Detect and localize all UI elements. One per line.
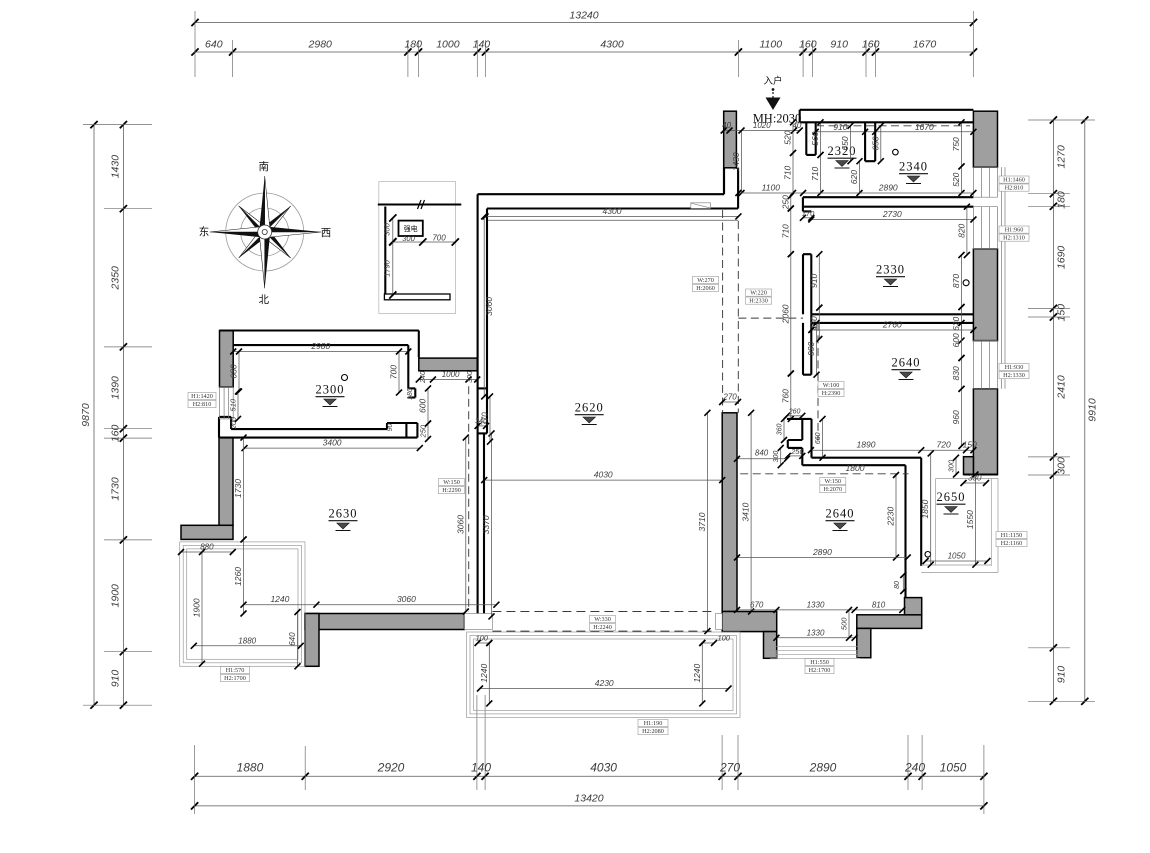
dim 960 2640 right: [961, 389, 963, 446]
wall gray band bottom-right rooms: [857, 615, 922, 629]
svg-text:1550: 1550: [965, 510, 975, 529]
balcony left (nested railing): [180, 542, 305, 666]
svg-text:300: 300: [402, 234, 415, 243]
svg-text:1730: 1730: [110, 477, 122, 501]
svg-text:1270: 1270: [1056, 145, 1068, 169]
svg-text:670: 670: [750, 600, 764, 609]
svg-text:1670: 1670: [913, 39, 937, 51]
dim 260 zigzag: [787, 415, 802, 417]
wall between 2330 and 2640: [811, 313, 973, 315]
svg-text:2230: 2230: [886, 506, 896, 526]
dim 330 2650: [964, 482, 987, 484]
label H1:1460 H2:810 (right wall): [999, 176, 1029, 183]
svg-text:40: 40: [722, 121, 731, 130]
svg-text:2640: 2640: [892, 356, 921, 370]
dim 1260: [243, 539, 245, 613]
svg-text:260: 260: [788, 408, 801, 415]
left dimension chain 9870 / 1430-2350-1390-160-1730-1900-910: [80, 121, 152, 709]
svg-text:1730: 1730: [233, 479, 243, 498]
svg-text:700: 700: [389, 365, 399, 379]
svg-text:3060: 3060: [397, 594, 416, 604]
dashed corridor west: [722, 210, 724, 413]
label H1:1150 H2:1160 (2650): [996, 532, 1027, 539]
svg-text:200: 200: [231, 417, 238, 430]
svg-text:910: 910: [1056, 666, 1068, 684]
svg-text:2890: 2890: [812, 547, 832, 557]
detail inset with strong-electric (qiang dian) box: [378, 182, 462, 314]
svg-text:1430: 1430: [110, 155, 122, 179]
dim 40|1020|40 entry door: [724, 130, 800, 132]
dim 1240 balc left: [488, 643, 490, 703]
svg-text:H1:570: H1:570: [226, 667, 245, 674]
column corridor (long, west of 2640): [722, 413, 737, 612]
dashed corridor east: [737, 221, 739, 413]
svg-text:520: 520: [951, 172, 961, 186]
svg-text:600: 600: [951, 333, 961, 347]
balcony 2650 east (railing): [936, 478, 998, 480]
dim 2730 under wall 2330: [811, 219, 973, 221]
svg-text:9910: 9910: [1087, 398, 1099, 422]
dim 250 corridor top: [790, 196, 792, 209]
svg-text:W:150: W:150: [824, 478, 841, 485]
svg-text:150: 150: [963, 440, 977, 450]
wall gray band bottom-2630: [305, 614, 465, 630]
svg-text:4300: 4300: [603, 206, 622, 216]
svg-text:910: 910: [830, 39, 848, 51]
svg-text:H:2330: H:2330: [749, 298, 768, 305]
svg-text:2300: 2300: [316, 383, 345, 397]
svg-text:2340: 2340: [899, 160, 928, 174]
svg-text:1430: 1430: [731, 152, 741, 171]
window symbol on living north wall: [691, 203, 711, 209]
label H1:930 H2:1330 (right wall): [999, 364, 1029, 371]
wall top (entry/2320/2340 north wall): [800, 109, 974, 111]
svg-text:H1:190: H1:190: [644, 720, 663, 727]
svg-text:150: 150: [1056, 304, 1068, 322]
svg-text:990: 990: [806, 341, 816, 355]
right dimension chain 9910 / 1270-180-1690-150-2410-300-910: [1028, 116, 1099, 705]
svg-text:700: 700: [432, 234, 446, 243]
svg-text:1050: 1050: [948, 552, 966, 561]
svg-text:300: 300: [383, 222, 392, 235]
column right-low step: [964, 457, 974, 475]
circle light 2330: [963, 280, 969, 286]
dim 1850 2650: [930, 453, 932, 564]
svg-text:H2:810: H2:810: [193, 401, 212, 408]
column bedroom2300 left-top: [220, 331, 234, 387]
svg-text:1240: 1240: [479, 663, 489, 682]
svg-text:660: 660: [815, 432, 822, 444]
svg-text:250: 250: [780, 195, 790, 210]
dim 680 2300: [238, 352, 240, 392]
svg-text:W:270: W:270: [697, 277, 714, 284]
svg-text:1000: 1000: [442, 370, 460, 379]
svg-text:3060: 3060: [484, 297, 494, 316]
svg-text:360: 360: [777, 423, 784, 435]
svg-text:1790: 1790: [383, 259, 392, 277]
circle light 2340: [893, 149, 899, 155]
svg-text:2730: 2730: [882, 209, 902, 219]
label H1:190 H2:2080 (balcony): [638, 720, 668, 727]
svg-text:1880: 1880: [238, 636, 256, 645]
svg-text:620: 620: [849, 170, 859, 184]
svg-text:510: 510: [229, 398, 238, 411]
partition stub S2 between 2320 and 2340 (650 long): [865, 122, 875, 161]
svg-text:H2:2080: H2:2080: [642, 728, 664, 735]
svg-text:160: 160: [110, 424, 122, 442]
svg-text:1670: 1670: [915, 122, 934, 132]
wall living-room north (4300): [478, 193, 724, 195]
circle light 2300: [342, 375, 348, 381]
svg-text:1880: 1880: [237, 761, 264, 775]
dim 270 corridor top: [722, 401, 738, 403]
dim 2890 lower-2640: [737, 557, 908, 559]
circle light 2650: [925, 552, 931, 558]
dim 910|1670 closet line: [816, 131, 974, 133]
svg-text:300: 300: [1056, 457, 1068, 475]
dim 650 stub S2 right: [880, 126, 882, 161]
svg-text:100: 100: [475, 633, 488, 642]
svg-text:270: 270: [719, 761, 740, 775]
dim 1900 balc: [201, 552, 203, 664]
svg-text:西: 西: [321, 227, 332, 239]
svg-text:H1:1420: H1:1420: [191, 393, 213, 400]
svg-text:720: 720: [937, 440, 951, 450]
column left-mid (below 2300 window): [219, 438, 233, 526]
svg-text:H:2070: H:2070: [824, 486, 843, 493]
svg-text:710: 710: [783, 166, 793, 180]
svg-text:2630: 2630: [329, 507, 358, 521]
dim 650 stub S2 left: [850, 126, 852, 161]
svg-text:H1:930: H1:930: [1005, 364, 1024, 371]
label W:150 H:2290 (thin wall): [439, 479, 465, 486]
svg-text:2620: 2620: [575, 401, 604, 415]
wall 2640 west (V2): [803, 323, 811, 375]
dashed closet top (entry rooms): [816, 125, 970, 127]
wall zigzag west of lower-2640: [787, 419, 812, 465]
svg-text:250: 250: [790, 447, 804, 456]
dim 870 2330 right: [961, 255, 963, 307]
svg-text:270: 270: [722, 393, 737, 402]
dim 670|1330|810 rear: [737, 609, 902, 611]
svg-text:1240: 1240: [692, 663, 702, 682]
svg-text:560: 560: [810, 131, 820, 145]
dim 620 2330 right: [961, 307, 963, 341]
svg-text:3060: 3060: [455, 515, 465, 534]
svg-text:1100: 1100: [762, 183, 781, 193]
black edge bottom-right column: [964, 473, 999, 475]
label W:220 H:2330 (corridor): [746, 289, 772, 296]
dim 300 V3 top: [955, 458, 957, 475]
dim 2230 lower-2640: [895, 475, 897, 558]
svg-text:650: 650: [840, 136, 850, 150]
dim 910 door 2330: [818, 254, 820, 308]
label W:150 H:2070: [820, 478, 846, 485]
label W:270 H:2060: [693, 277, 719, 284]
wall gray leg left of rear balcony: [764, 632, 777, 659]
svg-text:1050: 1050: [940, 761, 967, 775]
svg-text:2330: 2330: [876, 263, 905, 277]
dim 880: [181, 551, 233, 553]
svg-text:1260: 1260: [233, 567, 243, 586]
svg-text:W:220: W:220: [750, 290, 767, 297]
dim 1550 2650: [974, 475, 976, 565]
dim 80 tiny: [902, 575, 904, 591]
svg-text:2060: 2060: [780, 304, 790, 324]
svg-text:180: 180: [407, 388, 414, 400]
svg-text:240: 240: [420, 371, 427, 384]
svg-text:4030: 4030: [594, 470, 613, 480]
dim 1240 balc right: [701, 643, 703, 703]
dim 600 living left: [427, 388, 429, 423]
svg-text:W:150: W:150: [443, 479, 460, 486]
svg-text:1240: 1240: [270, 594, 289, 604]
dim 360 zigzag: [783, 419, 785, 440]
thin soffit line under living north wall: [487, 219, 738, 221]
svg-text:H2:1700: H2:1700: [224, 675, 246, 682]
dim 100 left: [478, 642, 490, 644]
svg-text:620: 620: [951, 316, 961, 330]
svg-text:2920: 2920: [377, 761, 405, 775]
dim 460 below: [818, 308, 820, 339]
dim 990 2640 left: [816, 323, 818, 375]
dim 3410 long: [750, 413, 752, 612]
svg-text:1900: 1900: [110, 584, 122, 608]
svg-text:W:100: W:100: [823, 382, 840, 389]
svg-text:1690: 1690: [1056, 246, 1068, 270]
svg-text:810: 810: [872, 600, 886, 609]
svg-text:H1:960: H1:960: [1005, 227, 1024, 234]
dim 300 zigzag: [780, 448, 782, 465]
dim 560 stub S1: [820, 122, 822, 155]
svg-text:710: 710: [810, 167, 820, 181]
svg-text:300: 300: [947, 459, 956, 472]
svg-text:140: 140: [473, 39, 491, 51]
svg-text:760: 760: [780, 389, 790, 403]
svg-text:180: 180: [404, 39, 422, 51]
compass rose (south-up): [199, 160, 332, 306]
label H1:550 H2:1700 (rear balcony): [805, 659, 834, 666]
svg-text:880: 880: [200, 543, 214, 552]
dim 710 a: [792, 153, 794, 193]
svg-text:2980: 2980: [308, 39, 333, 51]
dashed opening band to balcony upper: [492, 611, 715, 613]
svg-text:910: 910: [809, 274, 819, 288]
svg-text:3710: 3710: [697, 512, 707, 531]
svg-text:W:330: W:330: [594, 616, 611, 623]
svg-text:1800: 1800: [846, 463, 865, 473]
dim 520 jamb left: [792, 122, 794, 153]
svg-text:4230: 4230: [595, 678, 614, 688]
svg-text:1020: 1020: [753, 121, 771, 130]
label H1:570 H2:1700 (left balcony): [221, 667, 250, 674]
svg-text:南: 南: [258, 160, 269, 173]
dim 760 corridor: [790, 374, 792, 419]
dim 620 mid: [859, 161, 861, 193]
svg-text:H2:1330: H2:1330: [1003, 372, 1025, 379]
svg-text:2760: 2760: [882, 320, 902, 330]
svg-text:960: 960: [951, 410, 961, 424]
svg-text:3370: 3370: [481, 515, 491, 534]
dim 830 2640 right: [961, 358, 963, 389]
entry arrow (ru hu): [763, 75, 782, 110]
top dimension chain 13240 / 640-2980-180-1000-140-4300-1100-160-910-160-1670: [191, 10, 977, 78]
svg-text:180: 180: [1056, 191, 1068, 209]
window jamb piece left of corridor column: [716, 614, 723, 630]
wall living west / thin wall W150: [477, 194, 479, 616]
svg-text:1390: 1390: [110, 376, 122, 400]
svg-text:强电: 强电: [404, 224, 418, 233]
svg-text:H2:810: H2:810: [1005, 185, 1024, 192]
dim 820 2330 right: [966, 207, 968, 255]
svg-text:1330: 1330: [807, 628, 825, 637]
dim 1100|2890 row: [738, 192, 973, 194]
column entry-left (concrete): [724, 111, 737, 168]
window right wall 2640 (H1:930 H2:1330): [972, 341, 974, 389]
dim 140 thin wall top: [478, 425, 486, 427]
dim 600 2640 right top: [961, 323, 963, 358]
dim 840 under corridor: [737, 458, 787, 460]
wall gray bump bottom-right: [905, 598, 922, 615]
svg-text:1850: 1850: [920, 499, 930, 518]
door jamb stub S1 (2320 west, 560 long): [806, 122, 815, 155]
dim 520 right low: [961, 166, 963, 193]
dim 4300 living: [486, 215, 739, 217]
window left wall of 2300 (H1:1420 H2:810): [219, 387, 221, 419]
dashed wardrobe 2640: [817, 323, 819, 440]
svg-text:640: 640: [205, 39, 223, 51]
svg-text:90: 90: [387, 424, 394, 432]
dim 4230 balcony: [480, 688, 729, 690]
svg-text:520: 520: [783, 130, 793, 144]
label H1:1420 H2:810 (2300 window): [188, 393, 216, 400]
svg-text:300: 300: [773, 451, 780, 463]
svg-text:13420: 13420: [574, 793, 603, 805]
svg-text:140: 140: [471, 761, 491, 775]
svg-text:3400: 3400: [323, 438, 342, 448]
svg-text:北: 北: [258, 294, 269, 306]
wall bedroom2300 north + east: [220, 329, 419, 331]
svg-text:H:2240: H:2240: [593, 624, 612, 631]
dim 1050 2650: [926, 560, 988, 562]
svg-text:H1:1460: H1:1460: [1003, 177, 1025, 184]
window piece in bottom band (left of dashes): [465, 614, 493, 630]
wall bedroom2300 south: [231, 428, 387, 430]
svg-text:1890: 1890: [857, 440, 876, 450]
bottom dimension chain 13420 / 1880-2920-140-4030-270-2890-240-1050: [191, 695, 988, 814]
svg-text:H2:1160: H2:1160: [1001, 540, 1022, 547]
window right wall 2330 (H1:960 H2:1310): [972, 207, 974, 249]
svg-text:650: 650: [870, 136, 880, 150]
dim 2060 corridor: [790, 254, 792, 373]
svg-text:2980: 2980: [310, 341, 330, 351]
dim 500 rail: [848, 610, 850, 638]
dim 710 b: [820, 155, 822, 193]
dim 710 corridor: [790, 209, 792, 255]
svg-text:2650: 2650: [937, 490, 966, 504]
dashed opening band to balcony lower: [492, 630, 715, 632]
dim 660 zigzag: [822, 419, 824, 458]
svg-text:H:2290: H:2290: [442, 487, 461, 494]
svg-text:820: 820: [956, 223, 966, 237]
dim 100 right: [702, 642, 714, 644]
outer sill lines right wall: [1001, 167, 1003, 389]
dim 640 balc: [297, 612, 299, 666]
dim 750 right: [961, 122, 963, 166]
dim 4030 living: [484, 479, 722, 481]
svg-text:240: 240: [904, 761, 925, 775]
svg-text:H:2390: H:2390: [822, 390, 841, 397]
svg-text:600: 600: [418, 399, 428, 413]
svg-text:2410: 2410: [1056, 375, 1068, 400]
dim 1730 left int: [243, 438, 245, 540]
dim 1880 balc: [194, 645, 301, 647]
svg-text:100: 100: [717, 633, 730, 642]
dim 3400 under 2300: [245, 447, 420, 449]
svg-text:2640: 2640: [826, 507, 855, 521]
svg-text:1100: 1100: [760, 39, 783, 51]
svg-text:2890: 2890: [809, 761, 837, 775]
svg-text:4300: 4300: [600, 39, 624, 51]
svg-text:710: 710: [780, 224, 790, 238]
dim 2760 under wall 2330-2640: [811, 329, 973, 331]
dim 1330 rail: [776, 637, 854, 639]
wall gray band bottom of corridor: [722, 612, 777, 632]
wall 2330 north (kitchen divider): [803, 196, 974, 198]
label W:100 H:2390: [818, 382, 844, 389]
dim 250 living left: [427, 424, 429, 440]
svg-text:H2:1310: H2:1310: [1003, 235, 1025, 242]
svg-text:H1:1150: H1:1150: [1001, 532, 1022, 539]
lintel gray block between 2300 and living: [419, 358, 477, 371]
svg-text:250: 250: [419, 424, 428, 438]
dim 170 step: [803, 217, 811, 219]
dashed kitchen opening: [738, 317, 803, 319]
dim 3060 thin wall: [465, 438, 467, 612]
svg-text:160: 160: [862, 39, 880, 51]
wall gray step left (balcony corner): [181, 525, 233, 539]
window right wall upper (H1:1460 H2:810): [972, 167, 974, 197]
wall gray leg bottom-2630 left: [305, 614, 319, 667]
svg-text:910: 910: [110, 670, 122, 688]
svg-text:H2:1700: H2:1700: [809, 667, 831, 674]
dim 250 zigzag: [788, 455, 803, 457]
wall below entry column: [724, 168, 738, 209]
svg-text:750: 750: [951, 137, 961, 151]
svg-text:500: 500: [840, 617, 849, 630]
column right-top (concrete): [973, 111, 997, 167]
column right-low (concrete): [973, 389, 997, 475]
svg-text:160: 160: [799, 39, 817, 51]
svg-text:东: 东: [199, 225, 210, 238]
svg-text:680: 680: [229, 364, 239, 378]
dim 770 living: [489, 396, 491, 441]
svg-text:4030: 4030: [590, 761, 617, 775]
svg-text:770: 770: [481, 412, 490, 426]
column right-mid (concrete): [973, 249, 997, 341]
wall between upper-2640 and lower-2640: [812, 457, 922, 459]
dim 700 2300: [398, 352, 400, 393]
svg-text:13240: 13240: [569, 10, 598, 22]
svg-text:3410: 3410: [741, 502, 751, 521]
dim 1430 entry: [741, 131, 743, 194]
balcony bottom-right (railing lines): [770, 657, 860, 659]
dashed sliding door lower-2640 (1800): [740, 473, 908, 475]
svg-text:300: 300: [467, 371, 474, 383]
label H1:960 H2:1310 (right wall): [999, 226, 1029, 233]
svg-text:640: 640: [288, 632, 297, 646]
svg-text:2350: 2350: [110, 266, 122, 291]
